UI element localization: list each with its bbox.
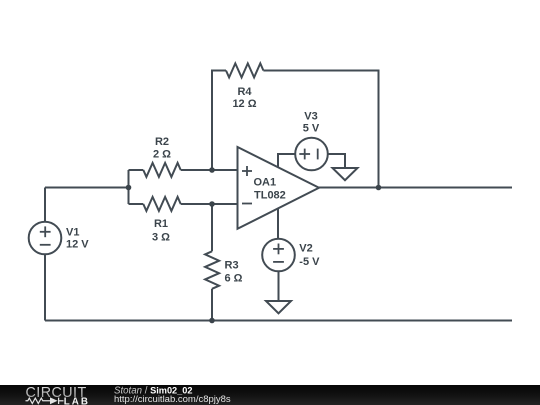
wire V1 bottom lead [44,254,46,320]
wire V1 top lead [44,188,46,222]
wire feedback left vertical (node B to R4) [212,71,226,171]
wire bottom rail [45,320,512,322]
svg-text:3 Ω: 3 Ω [152,232,170,244]
wire R1 to op-amp - input [181,203,238,205]
svg-text:5 V: 5 V [303,123,320,135]
resistor R4 [226,63,263,77]
svg-text:12 V: 12 V [66,239,89,251]
junction bottom rail/R3 [209,318,215,324]
junction output/feedback [376,185,382,191]
wire R4 to right vertical [263,71,378,188]
resistor R1 [143,197,180,211]
svg-text:R3: R3 [225,260,239,272]
wire node A split vertical [128,170,130,204]
wire R3 top lead [211,204,213,251]
wire R2 left lead [129,169,144,171]
voltage source V2 [262,239,295,272]
svg-text:12 Ω: 12 Ω [232,98,256,110]
op-amp OA1 [238,147,320,229]
svg-text:http://circuitlab.com/c8pjy8s: http://circuitlab.com/c8pjy8s [114,394,231,405]
ground (V2) [266,301,291,313]
wire R3 bottom lead [211,289,213,321]
svg-text:R1: R1 [154,218,168,230]
CircuitLab logo resistor-diode glyph [26,398,64,404]
wire R2 to op-amp + input [181,169,238,171]
ground (V3) [333,168,358,180]
wire op-amp V+ pin [278,154,295,167]
svg-text:V3: V3 [304,111,317,123]
junction node B (R2/R4) [209,167,215,173]
wire node A input from V1 [45,187,129,189]
svg-text:6 Ω: 6 Ω [225,273,243,285]
svg-text:V1: V1 [66,227,79,239]
wire output [319,187,512,189]
svg-text:R2: R2 [155,136,169,148]
voltage source V1 [29,222,62,255]
svg-text:2 Ω: 2 Ω [153,149,171,161]
svg-text:LAB: LAB [64,397,90,405]
wire V3 to ground [328,154,345,168]
svg-text:V2: V2 [299,243,312,255]
svg-text:-5 V: -5 V [299,256,320,268]
wire V2 to ground [278,271,280,301]
wire R1 left lead [129,203,144,205]
resistor R2 [143,163,180,177]
footer bar [0,385,540,405]
junction node A (input) [126,185,132,191]
wire op-amp V- pin [277,209,279,239]
resistor R3 [205,251,219,288]
junction node C (R1/R3) [209,201,215,207]
voltage source V3 [295,138,328,171]
svg-text:TL082: TL082 [254,190,286,202]
svg-text:OA1: OA1 [254,177,277,189]
svg-text:R4: R4 [237,86,252,98]
